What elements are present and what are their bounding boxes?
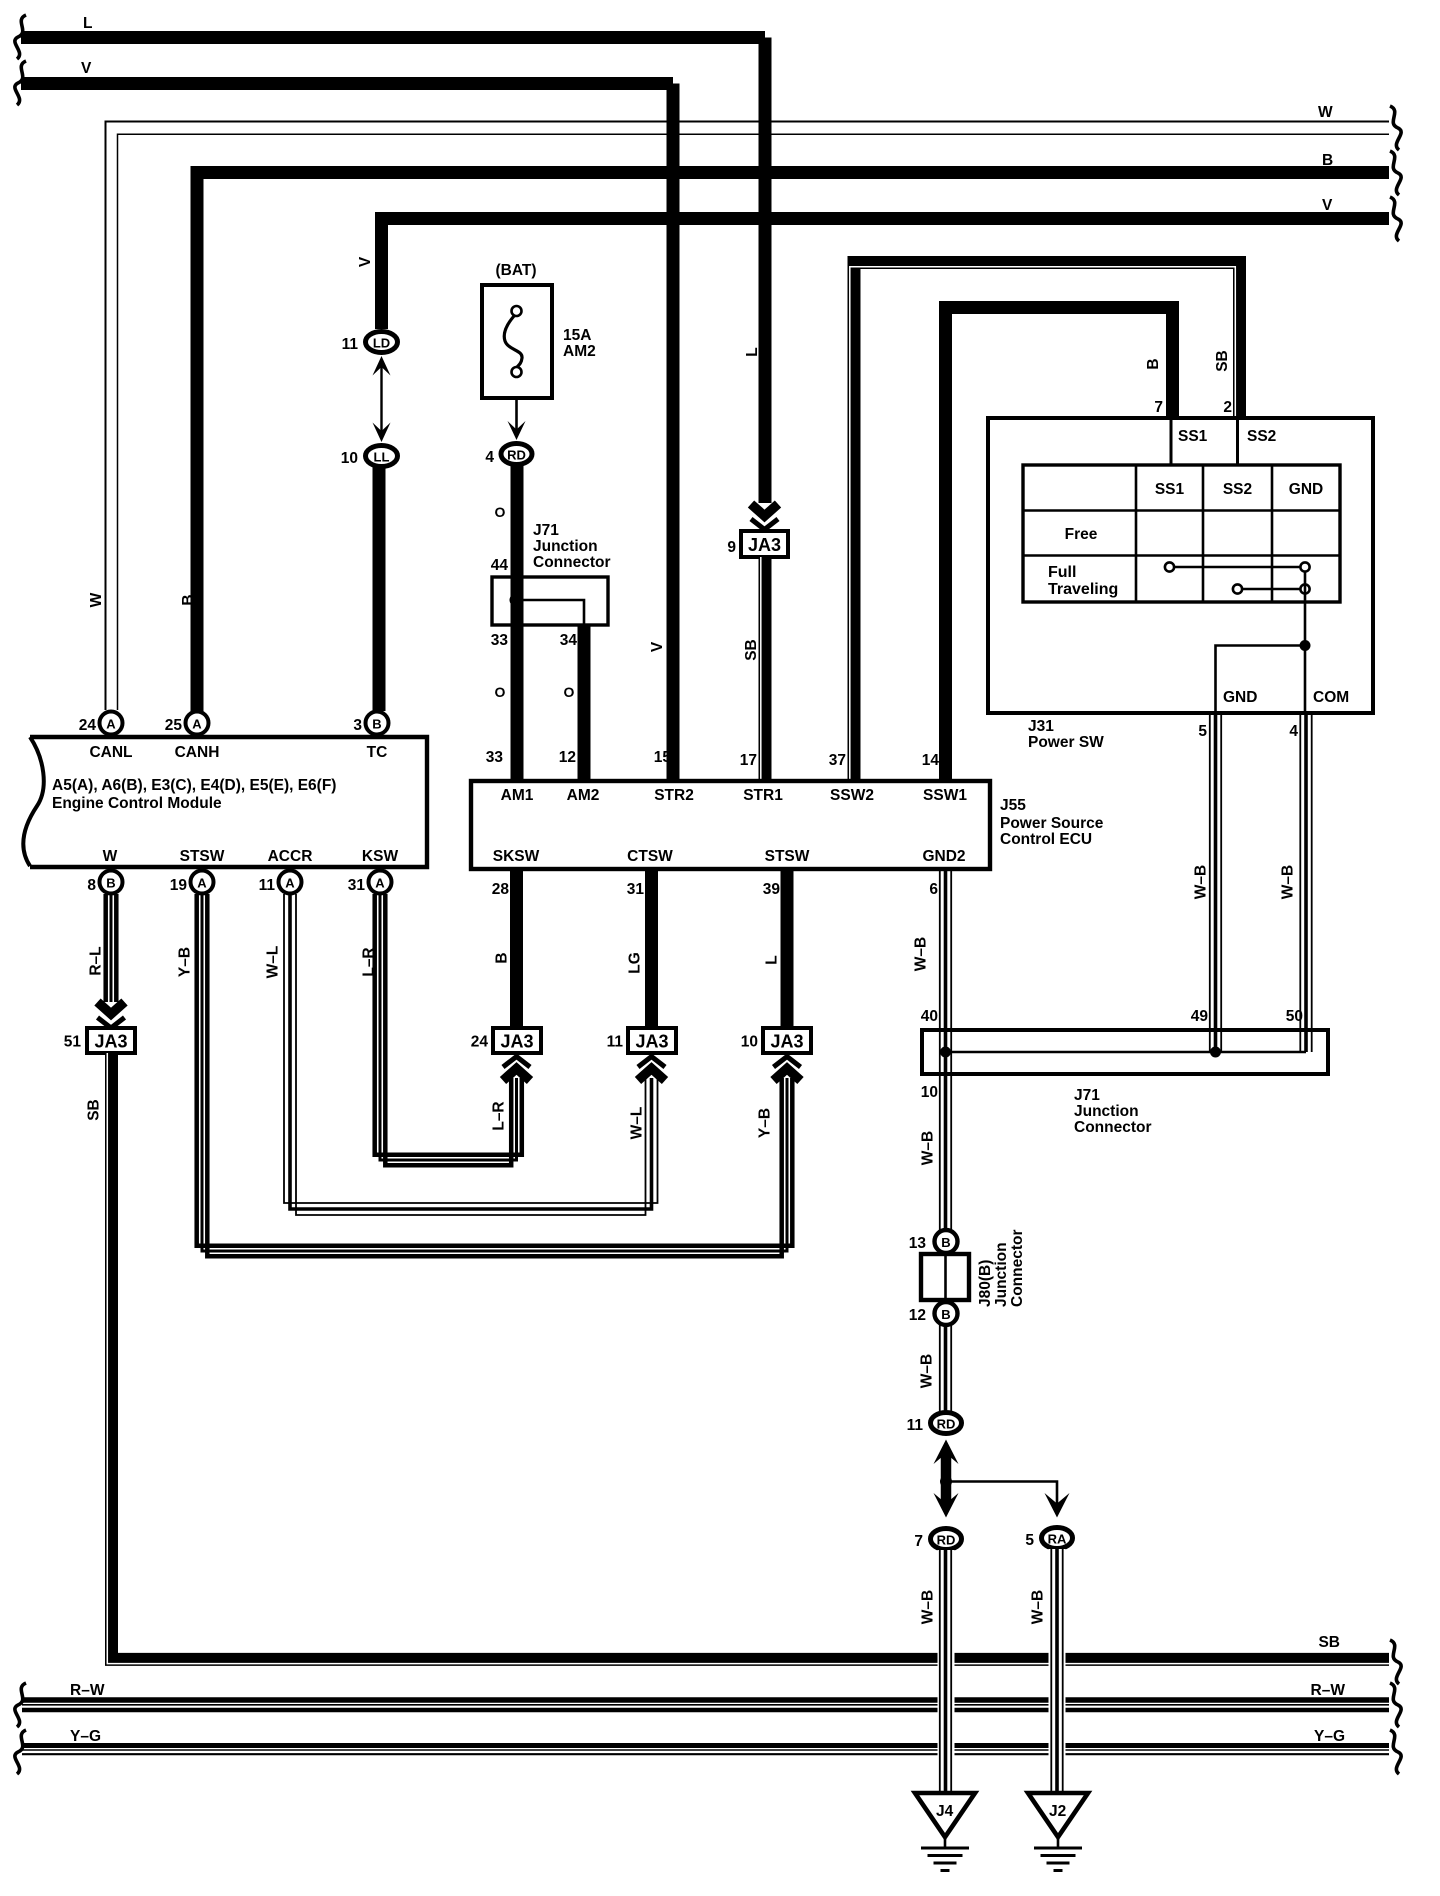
svg-text:SSW2: SSW2 <box>830 787 874 804</box>
svg-text:B: B <box>180 594 197 605</box>
svg-text:11: 11 <box>607 1034 624 1051</box>
brace right of V <box>1390 197 1401 241</box>
svg-text:19: 19 <box>170 877 188 894</box>
svg-text:Power SW: Power SW <box>1028 734 1104 751</box>
arrow into JA3 9 (double chevron down) <box>751 504 778 530</box>
svg-text:Free: Free <box>1065 526 1098 543</box>
svg-text:JA3: JA3 <box>770 1032 803 1052</box>
svg-text:A: A <box>197 876 207 891</box>
svg-text:B: B <box>372 717 381 732</box>
wire W-B from J31 COM pin 4 to J71 <box>1280 713 1312 1052</box>
wire junction to 5 RA (right then down) <box>946 1482 1057 1506</box>
svg-text:Junction: Junction <box>993 1242 1010 1307</box>
wire W-B from 7 RD to ground J4 (with casing over bottom lines) <box>920 1550 952 1793</box>
svg-text:SKSW: SKSW <box>493 848 540 865</box>
brace right of Y-G <box>1390 1730 1401 1774</box>
svg-text:W–B: W–B <box>1030 1590 1047 1624</box>
pin 11 A <box>259 871 302 895</box>
connector 11 RD <box>907 1413 962 1435</box>
svg-text:Engine Control Module: Engine Control Module <box>52 795 222 812</box>
svg-text:CANL: CANL <box>89 744 132 761</box>
wire LD to LL <box>380 364 382 434</box>
svg-text:W: W <box>1318 104 1333 121</box>
connector JA3 51 <box>64 1028 135 1053</box>
svg-text:25: 25 <box>165 717 183 734</box>
wire LL to TC pin <box>373 467 386 712</box>
wire Y-G bottom <box>22 1728 1389 1754</box>
connector 7 RD <box>914 1529 961 1551</box>
switch contacts row Full Traveling <box>1165 562 1310 593</box>
arrow into JA3 51 <box>98 1002 125 1028</box>
svg-text:39: 39 <box>763 881 781 898</box>
svg-text:W–B: W–B <box>920 1590 937 1624</box>
connector 11 LD <box>342 332 398 354</box>
wire V lower horizontal <box>357 197 1389 329</box>
ground J2 <box>1028 1793 1088 1871</box>
svg-text:B: B <box>494 952 511 963</box>
svg-text:GND: GND <box>1223 689 1257 706</box>
svg-text:A: A <box>375 876 385 891</box>
svg-text:A: A <box>192 717 202 732</box>
connector 4 RD <box>485 444 532 467</box>
wire B horizontal <box>180 152 1389 723</box>
pin 3 B <box>353 712 388 735</box>
svg-text:11: 11 <box>342 336 359 353</box>
svg-text:J2: J2 <box>1049 1803 1066 1820</box>
svg-text:15A: 15A <box>563 327 591 344</box>
brace left of L <box>15 15 26 59</box>
connector 10 LL <box>341 446 398 468</box>
svg-text:SB: SB <box>743 639 760 661</box>
svg-text:33: 33 <box>491 632 509 649</box>
wire W-B from 5 RA to ground J2 (with casing) <box>1030 1549 1063 1793</box>
wire R-L from ECM pin 8 <box>88 894 117 1002</box>
wire V top horizontal <box>21 60 673 84</box>
svg-text:RD: RD <box>937 1417 956 1432</box>
wire W-B from 12 B to 11 RD <box>919 1325 952 1411</box>
svg-text:R–W: R–W <box>1311 1682 1346 1699</box>
svg-text:Y–G: Y–G <box>1314 1728 1345 1745</box>
connector JA3 24 with up arrow <box>471 1028 541 1081</box>
svg-text:40: 40 <box>921 1008 938 1025</box>
connector JA3 9 <box>727 531 788 557</box>
svg-text:Junction: Junction <box>533 538 598 555</box>
svg-text:24: 24 <box>471 1034 489 1051</box>
svg-text:JA3: JA3 <box>500 1032 533 1052</box>
J55 bottom pin numbers <box>492 881 939 898</box>
svg-text:14: 14 <box>922 752 940 769</box>
ECU J31 Power SW box <box>988 418 1373 751</box>
svg-text:Connector: Connector <box>1074 1119 1152 1136</box>
svg-text:V: V <box>1322 197 1333 214</box>
svg-text:B: B <box>1322 152 1333 169</box>
svg-text:STR1: STR1 <box>743 787 783 804</box>
svg-text:7: 7 <box>1154 399 1163 416</box>
wire L-R from ECM pin 31 to JA3 24 <box>361 894 522 1165</box>
svg-text:37: 37 <box>829 752 846 769</box>
svg-text:5: 5 <box>1198 723 1207 740</box>
svg-text:SB: SB <box>1318 1634 1340 1651</box>
svg-text:SSW1: SSW1 <box>923 787 967 804</box>
svg-text:L: L <box>83 15 92 32</box>
svg-text:11: 11 <box>907 1417 924 1434</box>
svg-text:J55: J55 <box>1000 797 1026 814</box>
svg-text:W–B: W–B <box>1193 865 1210 899</box>
pin 19 A <box>170 871 214 895</box>
svg-text:12: 12 <box>909 1307 926 1324</box>
svg-text:J4: J4 <box>936 1803 954 1820</box>
svg-text:Full: Full <box>1048 564 1076 581</box>
svg-text:W–L: W–L <box>265 946 282 979</box>
wire B from SKSW to JA3 24 <box>494 871 517 1028</box>
connector 5 RA <box>1025 1528 1072 1550</box>
svg-text:31: 31 <box>627 881 645 898</box>
svg-text:V: V <box>649 641 666 652</box>
svg-text:CANH: CANH <box>175 744 220 761</box>
arrow down into LL <box>373 423 391 443</box>
brace right of SB <box>1390 1640 1401 1684</box>
svg-text:B: B <box>941 1307 950 1322</box>
svg-text:W–B: W–B <box>919 1354 936 1388</box>
svg-text:W–B: W–B <box>913 937 930 971</box>
wire W-L from ECM pin 11 to JA3 11 <box>265 894 658 1215</box>
svg-text:JA3: JA3 <box>94 1032 127 1052</box>
wire SB from JA3 9 to STR1 <box>743 557 765 781</box>
svg-text:4: 4 <box>485 449 494 466</box>
brace right of R-W <box>1390 1683 1401 1727</box>
svg-text:6: 6 <box>929 881 938 898</box>
wire V vertical to STR2 <box>649 84 673 782</box>
svg-text:W: W <box>103 848 118 865</box>
arrow down into 5 RA <box>1045 1493 1070 1518</box>
svg-text:Junction: Junction <box>1074 1103 1139 1120</box>
svg-text:R–W: R–W <box>70 1682 105 1699</box>
ECU J55 Power Source Control ECU box <box>471 781 1104 869</box>
svg-text:A5(A), A6(B), E3(C), E4(D), E5: A5(A), A6(B), E3(C), E4(D), E5(E), E6(F) <box>52 777 336 794</box>
svg-text:W–B: W–B <box>920 1131 937 1165</box>
svg-text:B: B <box>941 1235 950 1250</box>
svg-text:L: L <box>744 347 761 356</box>
svg-text:15: 15 <box>654 749 672 766</box>
svg-text:SS2: SS2 <box>1223 481 1252 498</box>
svg-text:LG: LG <box>627 952 644 974</box>
brace left of R-W <box>15 1683 26 1727</box>
pin SS1 entry divider <box>1171 418 1208 465</box>
svg-text:O: O <box>495 684 506 700</box>
svg-text:J80(B): J80(B) <box>977 1260 994 1307</box>
svg-text:SS2: SS2 <box>1247 428 1276 445</box>
svg-text:24: 24 <box>79 717 97 734</box>
brace left of V <box>15 61 26 105</box>
svg-text:Power Source: Power Source <box>1000 815 1104 832</box>
svg-text:L: L <box>764 955 781 964</box>
svg-text:KSW: KSW <box>362 848 399 865</box>
svg-text:Connector: Connector <box>533 554 611 571</box>
svg-text:L–R: L–R <box>361 947 378 976</box>
svg-text:J71: J71 <box>533 522 559 539</box>
svg-text:10: 10 <box>341 450 358 467</box>
pin SS2 entry divider <box>1238 418 1277 465</box>
wire LG from CTSW to JA3 11 <box>627 871 652 1028</box>
svg-text:L–R: L–R <box>491 1101 508 1130</box>
svg-text:GND: GND <box>1289 481 1323 498</box>
svg-text:STSW: STSW <box>180 848 225 865</box>
svg-text:51: 51 <box>64 1034 82 1051</box>
svg-text:10: 10 <box>741 1034 758 1051</box>
svg-text:O: O <box>564 684 575 700</box>
svg-text:31: 31 <box>348 877 366 894</box>
svg-text:33: 33 <box>486 749 504 766</box>
wire SB loop SSW2 to SS2 <box>850 263 1240 782</box>
pin 24 A <box>79 712 123 735</box>
svg-text:B: B <box>1145 358 1162 369</box>
connector JA3 10 with up arrow <box>741 1028 811 1081</box>
svg-text:7: 7 <box>914 1533 923 1550</box>
svg-text:V: V <box>81 60 92 77</box>
svg-text:Control ECU: Control ECU <box>1000 831 1092 848</box>
svg-text:W–B: W–B <box>1280 865 1297 899</box>
arrow up into LD <box>373 356 391 376</box>
svg-text:13: 13 <box>909 1235 927 1252</box>
svg-text:10: 10 <box>921 1084 938 1101</box>
svg-text:2: 2 <box>1223 399 1232 416</box>
svg-text:11: 11 <box>259 877 276 894</box>
svg-text:AM2: AM2 <box>567 787 600 804</box>
svg-text:RA: RA <box>1048 1532 1067 1547</box>
ECM box (Engine Control Module) <box>23 737 427 867</box>
svg-text:SS1: SS1 <box>1155 481 1185 498</box>
brace right of W <box>1390 106 1401 150</box>
svg-text:Y–B: Y–B <box>757 1108 774 1138</box>
svg-text:50: 50 <box>1286 1008 1303 1025</box>
svg-text:SB: SB <box>1214 350 1231 372</box>
svg-text:A: A <box>106 717 116 732</box>
svg-text:W–L: W–L <box>629 1107 646 1140</box>
brace left of Y-G <box>15 1730 26 1774</box>
svg-text:(BAT): (BAT) <box>495 262 536 279</box>
svg-text:LL: LL <box>374 450 390 465</box>
wire L vertical <box>744 38 765 504</box>
svg-text:J71: J71 <box>1074 1087 1100 1104</box>
wire R-W bottom <box>22 1682 1389 1710</box>
wire B loop SSW1 to SS1 <box>946 308 1173 782</box>
svg-text:JA3: JA3 <box>748 535 781 555</box>
svg-text:49: 49 <box>1191 1008 1209 1025</box>
junction node below 11 RD <box>940 1476 952 1488</box>
wire SB from JA3 51 down and right <box>86 1053 1389 1664</box>
svg-text:17: 17 <box>740 752 757 769</box>
pin 8 B <box>87 871 122 895</box>
svg-text:9: 9 <box>727 539 736 556</box>
svg-text:28: 28 <box>492 881 510 898</box>
svg-text:JA3: JA3 <box>635 1032 668 1052</box>
svg-text:4: 4 <box>1289 723 1298 740</box>
arrow into RD 4 <box>508 421 526 440</box>
arrow up into 11 RD with tail to junction <box>934 1440 959 1482</box>
J55 top pin numbers <box>486 749 940 769</box>
junction connector J71 (bottom right) <box>921 1008 1328 1136</box>
svg-text:O: O <box>495 504 506 520</box>
wire L from STSW to JA3 10 <box>764 871 787 1028</box>
junction connector J80(B) <box>921 1230 1026 1308</box>
wire W horizontal (hollow) <box>88 104 1389 710</box>
wire L top horizontal <box>21 15 765 38</box>
wire Y-B from ECM pin 19 to JA3 10 <box>177 894 793 1256</box>
svg-text:RD: RD <box>937 1533 956 1548</box>
svg-text:A: A <box>285 876 295 891</box>
svg-text:TC: TC <box>367 744 388 761</box>
svg-text:STSW: STSW <box>765 848 810 865</box>
svg-text:12: 12 <box>559 749 576 766</box>
connector 12 B <box>909 1302 958 1325</box>
svg-text:GND2: GND2 <box>922 848 965 865</box>
svg-text:J31: J31 <box>1028 718 1054 735</box>
ground J4 <box>915 1793 975 1871</box>
svg-text:Y–G: Y–G <box>70 1728 101 1745</box>
connector 13 B <box>909 1230 958 1253</box>
svg-text:Traveling: Traveling <box>1048 581 1118 598</box>
svg-text:AM1: AM1 <box>501 787 534 804</box>
internal GND/COM wiring of J31 <box>1216 571 1350 713</box>
svg-text:R–L: R–L <box>88 946 105 975</box>
pin 25 A <box>165 712 209 735</box>
svg-text:B: B <box>106 876 115 891</box>
svg-text:34: 34 <box>560 632 578 649</box>
svg-text:SB: SB <box>86 1099 103 1121</box>
svg-text:44: 44 <box>491 557 509 574</box>
svg-text:CTSW: CTSW <box>627 848 673 865</box>
svg-text:ACCR: ACCR <box>268 848 313 865</box>
svg-text:5: 5 <box>1025 1532 1034 1549</box>
svg-text:W: W <box>88 592 105 607</box>
pin 31 A <box>348 871 392 895</box>
connector JA3 11 with up arrow <box>607 1028 676 1081</box>
svg-text:3: 3 <box>353 717 362 734</box>
wire fuse to RD 4 <box>515 400 518 430</box>
fuse AM2 15A (BAT) <box>482 262 596 398</box>
svg-text:LD: LD <box>373 336 390 351</box>
wire AM2 (J71 to J55) <box>564 625 584 781</box>
switch table in J31 <box>1023 465 1340 602</box>
brace right of B <box>1390 151 1401 195</box>
arrow down into 7 RD <box>934 1482 959 1518</box>
svg-text:RD: RD <box>507 448 526 463</box>
wire AM1 (RD4 to J55) <box>491 464 517 781</box>
svg-text:COM: COM <box>1313 689 1349 706</box>
svg-text:V: V <box>357 256 374 267</box>
svg-text:STR2: STR2 <box>654 787 694 804</box>
svg-text:Connector: Connector <box>1009 1230 1026 1308</box>
wire W-B from GND2 down through J71 to J80 <box>913 871 952 1230</box>
svg-text:Y–B: Y–B <box>177 947 194 977</box>
svg-text:SS1: SS1 <box>1178 428 1208 445</box>
svg-text:AM2: AM2 <box>563 343 596 360</box>
wire W-B from J31 GND pin 5 to J71 <box>1193 713 1222 1052</box>
junction connector J71 (top) <box>491 464 611 781</box>
svg-text:8: 8 <box>87 877 96 894</box>
